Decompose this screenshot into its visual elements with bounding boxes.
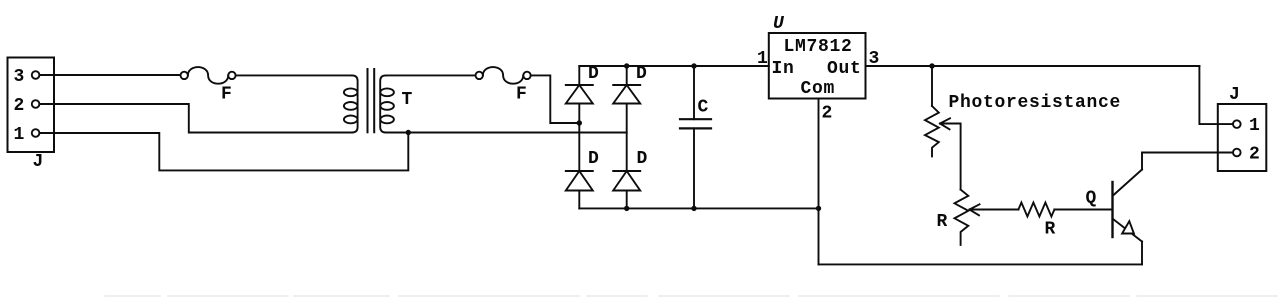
wire F1 to transformer primary [236,74,352,76]
photoresistor [925,66,1121,190]
svg-text:R: R [1045,220,1057,240]
wire U1 Com down [818,99,820,265]
svg-text:1: 1 [14,125,26,145]
pin 2 [14,96,40,116]
svg-text:R: R [937,212,949,232]
svg-text:3: 3 [14,67,26,87]
diode D1 [566,64,600,123]
svg-text:2: 2 [822,104,834,124]
fuse F2 [476,67,531,104]
transformer T secondary winding [380,75,413,132]
wire R1 wiper to R2 [970,209,1019,211]
diode D2 [613,64,647,171]
svg-text:F: F [221,85,233,105]
svg-text:D: D [588,149,600,169]
svg-text:C: C [698,98,710,118]
junction dot rail/D4 [624,206,629,211]
wire R2 to base [1054,209,1112,211]
svg-text:U: U [773,14,785,34]
svg-text:Com: Com [801,79,836,99]
wire bottom return rail [819,263,1143,265]
transistor Q1 [1086,170,1143,242]
wire Out rail to J2 pin 1 [1199,66,1232,124]
svg-text:T: T [402,90,414,110]
wire emitter to bottom rail [1141,242,1143,265]
svg-text:J: J [1229,85,1241,105]
wire pin2 to transformer primary bottom [39,104,352,133]
potentiometer R1 [937,190,980,245]
wire DC- rail [579,207,818,209]
junction dot rail/Com [816,206,821,211]
svg-text:F: F [516,85,528,105]
junction dot rail/D2 [624,63,629,68]
svg-text:Photoresistance: Photoresistance [949,93,1122,113]
svg-text:J: J [33,152,45,172]
diode D3 [566,123,600,208]
capacitor C [680,66,711,208]
node A junction dot [406,130,411,135]
wire pin3 to fuse F1 [39,74,180,76]
diode D4 [613,149,648,208]
svg-text:Q: Q [1086,189,1098,209]
resistor R2 [1018,203,1056,240]
pin 1 [14,125,40,145]
connector J1 [8,58,55,173]
wire DC+ rail [579,65,769,67]
node AC1 [577,120,582,125]
transformer T primary winding [344,75,358,132]
svg-text:LM7812: LM7812 [784,37,853,57]
svg-text:2: 2 [1249,144,1261,164]
svg-text:1: 1 [1249,116,1261,136]
J2 pin 2 [1233,144,1261,164]
wire collector to J2 pin 2 [1142,153,1233,170]
junction dot rail/C top [691,63,696,68]
svg-text:Out: Out [827,59,862,79]
wire U1 Out rail [866,65,1200,67]
junction dot rail/C bottom [691,206,696,211]
wire node A to bridge node AC2 [386,132,627,134]
wire F2 to bridge node AC1 [531,75,580,123]
svg-text:In: In [772,59,795,79]
svg-text:2: 2 [14,96,26,116]
connector J2 [1218,85,1267,171]
J2 pin 1 [1233,116,1261,136]
wire pin1 to node A [39,133,408,170]
svg-text:1: 1 [757,49,769,69]
transformer T core [368,69,375,132]
wire secondary top to fuse F2 [386,74,476,76]
pin 3 [14,67,40,87]
fuse F1 [181,67,236,104]
svg-text:D: D [637,149,649,169]
voltage regulator U1 [769,14,866,99]
junction dot Out rail/LDR [929,63,934,68]
